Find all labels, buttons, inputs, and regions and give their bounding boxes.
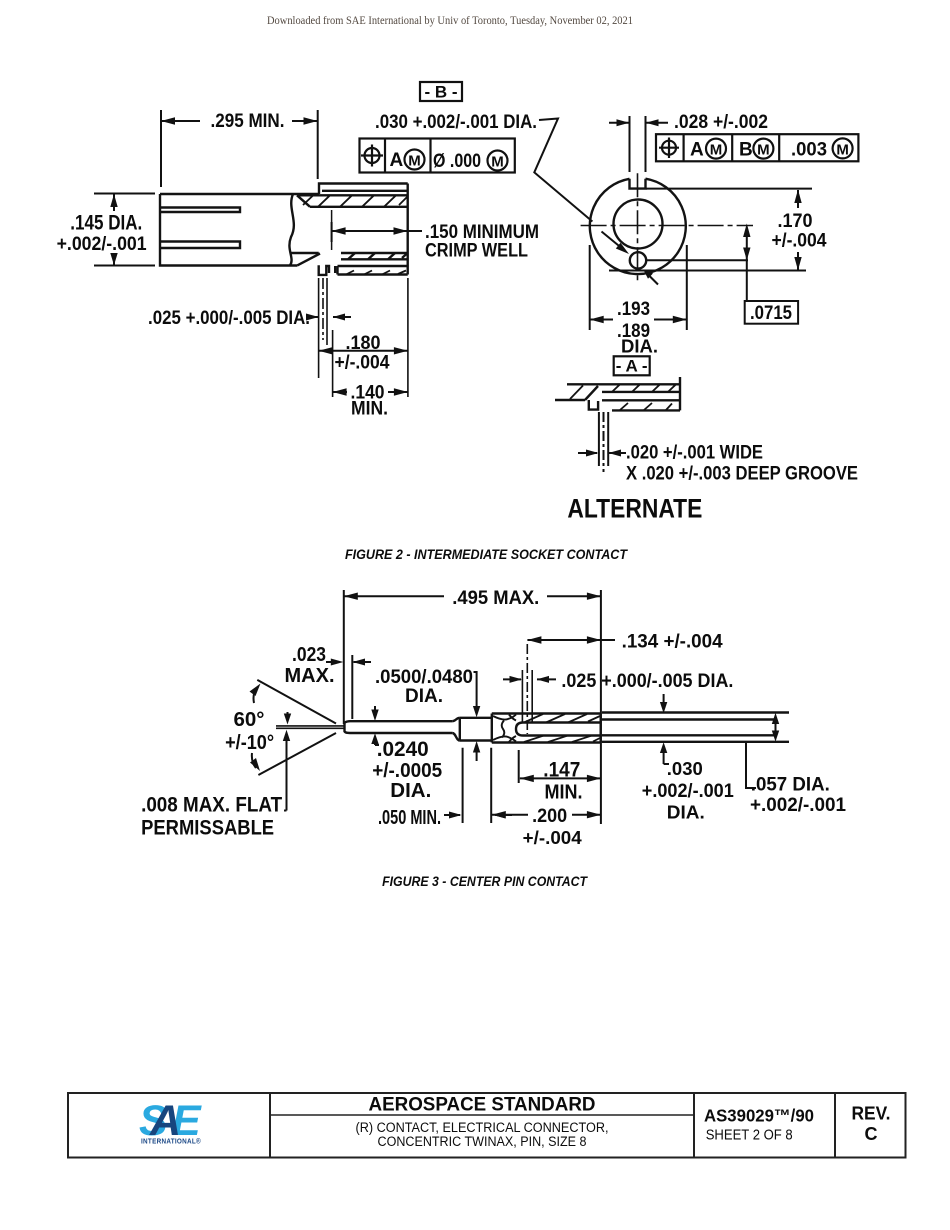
barrel right end: [407, 184, 409, 275]
dimension .295 extension line left: [160, 110, 162, 187]
.008 flat arrows: [283, 712, 291, 811]
svg-text:.025 +.000/-.005 DIA.: .025 +.000/-.005 DIA.: [561, 671, 733, 692]
SAE logo: [139, 1097, 202, 1146]
.028 arrow right: [646, 122, 668, 124]
svg-text:.030 +.002/-.001 DIA.: .030 +.002/-.001 DIA.: [375, 112, 537, 133]
flat lines at tip: [276, 726, 344, 728]
divider AS cell: [693, 1093, 695, 1158]
cone line upper: [257, 680, 336, 724]
top wall hatching: [303, 195, 408, 207]
leader into small hole: [602, 232, 625, 251]
svg-text:.495 MAX.: .495 MAX.: [452, 588, 539, 609]
.150 extension tick: [331, 222, 333, 242]
FCF1 M circle 1: [405, 150, 425, 170]
crimp sleeve top: [319, 184, 408, 195]
svg-text:A: A: [390, 150, 404, 171]
feature control frame FCF1: [360, 139, 515, 173]
ext line mid cylinder: [462, 748, 464, 823]
.025 arrows fig3: [503, 678, 521, 680]
svg-text:+/-.004: +/-.004: [772, 231, 827, 252]
divider under AEROSPACE STANDARD: [270, 1114, 694, 1116]
dimension .0715: [743, 224, 750, 302]
FCF2 M circles: [706, 139, 726, 159]
retention tab: [319, 265, 336, 275]
cone line lower: [258, 733, 336, 775]
outer circle with notch: [590, 179, 686, 274]
main body: [492, 714, 601, 743]
svg-text:SHEET 2 OF 8: SHEET 2 OF 8: [706, 1127, 793, 1144]
svg-text:.028 +/-.002: .028 +/-.002: [674, 112, 768, 133]
svg-text:+/-.004: +/-.004: [335, 353, 390, 374]
alternate tab: [589, 400, 598, 410]
svg-text:+/-.004: +/-.004: [523, 827, 583, 848]
svg-text:INTERNATIONAL®: INTERNATIONAL®: [141, 1138, 201, 1146]
FCF1 M circle 2: [488, 151, 508, 171]
FCF1 position symbol: [365, 148, 380, 163]
mid cylinder: [460, 718, 492, 741]
svg-text:CRIMP WELL: CRIMP WELL: [425, 241, 528, 262]
upper slot: [160, 208, 240, 213]
bracket .057: [746, 743, 756, 788]
weld end curves: [493, 715, 516, 743]
svg-text:FIGURE 3 - CENTER PIN CONTACT: FIGURE 3 - CENTER PIN CONTACT: [382, 874, 589, 889]
svg-text:.0240: .0240: [377, 738, 429, 761]
alternate hatch wedge: [570, 386, 583, 400]
alternate body lines: [555, 384, 680, 400]
.495 ext line left: [343, 590, 345, 724]
svg-text:PERMISSABLE: PERMISSABLE: [141, 816, 274, 839]
pin tip bullet: [344, 721, 352, 733]
lower slot: [160, 242, 240, 249]
svg-text:AEROSPACE STANDARD: AEROSPACE STANDARD: [369, 1094, 596, 1116]
svg-text:M: M: [710, 142, 723, 159]
svg-text:.008 MAX. FLAT: .008 MAX. FLAT: [141, 794, 282, 817]
svg-text:.003: .003: [791, 140, 827, 161]
svg-text:M: M: [491, 154, 504, 171]
svg-text:ALTERNATE: ALTERNATE: [567, 494, 702, 524]
svg-text:.145 DIA.: .145 DIA.: [70, 212, 142, 235]
alternate hatches: [612, 384, 676, 410]
svg-text:.295 MIN.: .295 MIN.: [211, 111, 285, 132]
.150 arrow right: [394, 227, 408, 234]
.028 ext line left: [629, 116, 631, 172]
vertical centerline: [637, 173, 639, 283]
up arrow below: [476, 747, 478, 761]
svg-text:Ø .000: Ø .000: [433, 151, 481, 172]
svg-text:.030: .030: [667, 759, 703, 779]
svg-text:.134 +/-.004: .134 +/-.004: [622, 632, 723, 653]
bottom wall hatch band: [341, 253, 408, 259]
dimension .295 line right: [292, 120, 317, 122]
svg-text:.0715: .0715: [750, 303, 792, 324]
ext line body left: [490, 748, 492, 823]
svg-text:+/-10°: +/-10°: [225, 732, 274, 754]
svg-text:.193: .193: [617, 299, 650, 320]
label .030 DIA fig3: [660, 694, 669, 764]
svg-text:60°: 60°: [234, 709, 265, 731]
ext line at 519.8: [518, 750, 520, 783]
svg-text:+/-.0005: +/-.0005: [372, 760, 442, 782]
arrow .295 left: [161, 117, 175, 124]
hole .025 fig3: [522, 644, 532, 734]
svg-text:.025 +.000/-.005 DIA.: .025 +.000/-.005 DIA.: [148, 308, 310, 329]
bottom sleeve hatching: [346, 271, 406, 275]
reference line from hole: [647, 259, 749, 261]
svg-text:DIA.: DIA.: [621, 337, 658, 357]
.193 dim lines: [590, 319, 613, 321]
body bottom hatching: [524, 736, 600, 742]
svg-text:REV.: REV.: [852, 1104, 891, 1124]
reference line from notch: [646, 188, 812, 190]
right ext line shared: [600, 590, 602, 824]
flare shoulder: [452, 718, 460, 741]
tail outer lines: [602, 713, 789, 742]
inner circle: [614, 200, 663, 249]
svg-text:C: C: [865, 1124, 878, 1144]
svg-text:AS39029™/90: AS39029™/90: [704, 1106, 814, 1126]
svg-text:MAX.: MAX.: [285, 665, 335, 687]
bottom sleeve: [338, 266, 408, 275]
FCF2 position symbol: [662, 141, 676, 155]
.145 reference line top: [94, 193, 155, 195]
svg-text:(R) CONTACT, ELECTRICAL CONNEC: (R) CONTACT, ELECTRICAL CONNECTOR,: [356, 1120, 609, 1135]
body top hatching: [524, 714, 600, 723]
svg-text:.170: .170: [778, 211, 813, 232]
label .0240 DIA: [371, 706, 379, 745]
svg-text:B: B: [739, 140, 753, 161]
feature control frame FCF2: [656, 134, 858, 161]
break wave line: [289, 194, 293, 266]
svg-text:+.002/-.001: +.002/-.001: [57, 233, 147, 255]
dimension .295 line left: [161, 120, 200, 122]
end view circles: [590, 179, 686, 274]
svg-text:MIN.: MIN.: [545, 782, 583, 804]
alternate crimp band: [602, 377, 680, 410]
svg-text:M: M: [757, 142, 770, 159]
dimension .134: [527, 636, 615, 643]
bore outline: [516, 723, 601, 736]
alternate groove view: [555, 377, 680, 410]
svg-text:.050 MIN.: .050 MIN.: [378, 807, 441, 829]
svg-text:MIN.: MIN.: [351, 399, 388, 420]
leader .030 DIA: [534, 119, 592, 222]
svg-text:.0500/.0480: .0500/.0480: [375, 667, 473, 688]
title block outer box: [68, 1093, 906, 1158]
svg-text:DIA.: DIA.: [667, 803, 705, 823]
svg-text:X .020 +/-.003 DEEP GROOVE: X .020 +/-.003 DEEP GROOVE: [626, 464, 858, 485]
.028 ext line right: [645, 116, 647, 172]
box .0715: [745, 301, 798, 324]
svg-text:.057 DIA.: .057 DIA.: [751, 774, 830, 796]
crimp well bottom line: [331, 210, 333, 250]
.025 arrow right: [333, 316, 351, 318]
svg-text:.200: .200: [532, 805, 567, 827]
svg-text:DIA.: DIA.: [390, 780, 431, 802]
svg-text:- B -: - B -: [424, 83, 457, 102]
pin thin shaft: [352, 721, 452, 733]
notch: [630, 179, 646, 189]
reference line circle bottom: [609, 270, 806, 272]
horizontal centerline: [581, 225, 753, 227]
svg-text:CONCENTRIC TWINAX, PIN, SIZE 8: CONCENTRIC TWINAX, PIN, SIZE 8: [378, 1134, 587, 1149]
groove extension lines: [598, 412, 600, 466]
.150 dimension line: [332, 230, 422, 232]
arrow .295 right: [304, 117, 318, 124]
.150 arrow left: [332, 227, 346, 234]
svg-text:M: M: [836, 141, 849, 158]
.145 arrow down: [113, 253, 115, 265]
svg-text:A: A: [690, 140, 704, 161]
body outline left barrel: [160, 194, 319, 266]
groove arrows: [578, 452, 597, 454]
svg-text:+.002/-.001: +.002/-.001: [750, 794, 846, 816]
.028 arrow left: [609, 122, 629, 124]
dimension .295 extension line right: [317, 110, 319, 179]
svg-text:- A -: - A -: [616, 357, 648, 376]
svg-text:M: M: [408, 153, 421, 170]
datum A box: [614, 356, 650, 375]
center pin body (Figure 3): [344, 713, 789, 743]
.025 arrow left: [310, 316, 318, 318]
.023 ext line right: [351, 655, 353, 719]
tail bore lines: [602, 720, 777, 736]
.145 reference line bottom: [94, 265, 155, 267]
svg-text:.020 +/-.001 WIDE: .020 +/-.001 WIDE: [626, 443, 763, 464]
svg-text:+.002/-.001: +.002/-.001: [642, 780, 734, 802]
60 leader arrow upper: [254, 687, 259, 703]
svg-text:FIGURE 2 - INTERMEDIATE SOCKET: FIGURE 2 - INTERMEDIATE SOCKET CONTACT: [345, 547, 629, 562]
bracket and down arrow: [474, 672, 477, 712]
small hole: [630, 252, 646, 268]
right extension line (barrel end): [407, 278, 409, 397]
.145 arrow up: [113, 194, 115, 211]
bottom chamfer: [298, 254, 321, 266]
divider logo: [269, 1093, 271, 1158]
svg-text:DIA.: DIA.: [405, 686, 443, 707]
60 leader arrow lower: [252, 753, 256, 768]
.193 ext lines: [589, 245, 591, 330]
svg-text:Downloaded from SAE Internatio: Downloaded from SAE International by Uni…: [267, 15, 633, 27]
bore bottom line: [290, 252, 408, 254]
hole extension lines below tab: [318, 278, 320, 378]
dimension .057 DIA: [746, 713, 779, 788]
svg-text:.023: .023: [292, 644, 326, 666]
socket contact body (Figure 2 side view): [160, 184, 408, 275]
divider REV cell: [834, 1093, 836, 1158]
crimp barrel top wall: [297, 195, 408, 207]
leader tangent arrow: [648, 275, 658, 285]
datum B box: [420, 82, 462, 101]
